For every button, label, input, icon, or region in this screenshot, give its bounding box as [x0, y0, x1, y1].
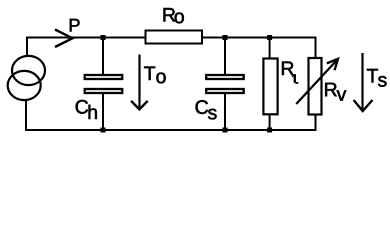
wire R_V drop lower	[315, 115, 317, 132]
wire R_i lead	[269, 38, 271, 130]
label Ri	[282, 62, 294, 75]
resistor Ri	[263, 59, 277, 115]
label Cs	[196, 100, 208, 114]
resistor RV (variable)	[309, 58, 322, 115]
arrow T0	[138, 55, 140, 109]
node dot bottom Ri	[267, 128, 272, 133]
node dot top Ri	[267, 35, 272, 40]
wire top rail	[26, 37, 317, 39]
wire left rail lower segment	[25, 100, 27, 131]
label T0	[144, 67, 155, 80]
wire C_h lead lower	[102, 93, 104, 130]
node dot top Cs	[223, 35, 228, 40]
arrow Ts	[361, 53, 363, 110]
resistor R0	[146, 31, 203, 44]
source Q1 bottom circle	[8, 71, 41, 100]
capacitor Ch bottom plate	[85, 89, 123, 93]
capacitor Cs top plate	[206, 75, 244, 79]
arrow P on top wire	[55, 30, 73, 48]
label RV	[325, 83, 337, 96]
wire left rail upper segment	[26, 37, 28, 58]
capacitor Cs bottom plate	[206, 89, 244, 93]
wire C_s lead upper	[224, 38, 226, 75]
wire R_V drop upper	[315, 38, 317, 59]
label P	[70, 19, 80, 32]
label Ch	[76, 100, 88, 114]
source Q1 top circle	[12, 56, 45, 85]
arrow through RV	[296, 59, 337, 104]
node dot top Ch	[101, 35, 106, 40]
wire C_h lead upper	[102, 38, 104, 75]
wire bottom rail	[26, 129, 317, 131]
node dot bottom Cs	[223, 128, 228, 133]
label Ts	[367, 69, 378, 82]
wire C_s lead lower	[224, 93, 226, 130]
label R0	[164, 8, 176, 21]
capacitor Ch top plate	[85, 75, 123, 79]
node dot bottom Ch	[101, 128, 106, 133]
